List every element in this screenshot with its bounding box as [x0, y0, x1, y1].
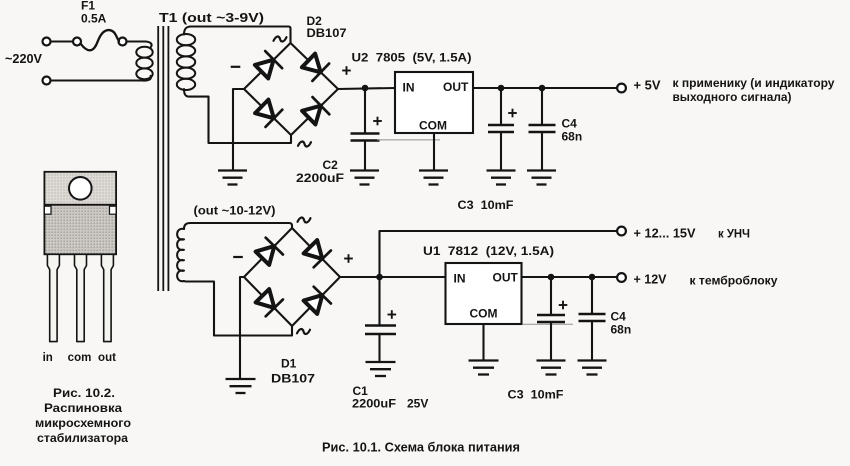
diode D2.3 (left to bottom): [255, 100, 282, 127]
node input terminal top (~220V): [43, 38, 51, 46]
svg-text:Распиновка: Распиновка: [44, 401, 122, 415]
svg-text:U1 7812 (12V, 1.5A): U1 7812 (12V, 1.5A): [423, 244, 554, 258]
label + 5V: [634, 79, 662, 93]
label - of D2: [231, 66, 241, 68]
label C3 10mF (5V rail): [458, 198, 514, 212]
ground at D1: [226, 379, 256, 393]
label out: [98, 352, 116, 364]
node input terminal bottom (~220V): [43, 77, 51, 85]
label + 12... 15V: [634, 227, 697, 241]
label ~ bottom of D2: [298, 141, 311, 146]
label U2 7805 (5V, 1.5A): [352, 51, 472, 65]
label D2: [307, 14, 323, 28]
caption Рис. 10.1. Схема блока питания: [322, 440, 520, 455]
label ~ top of D1: [298, 217, 311, 222]
svg-text:+ 12... 15V: + 12... 15V: [634, 227, 697, 241]
label D1: [281, 357, 297, 371]
svg-text:+ 5V: + 5V: [634, 79, 662, 93]
wire D1 plus to U1 IN: [340, 276, 446, 278]
label + 12V: [634, 273, 668, 287]
label DB107: [307, 26, 347, 40]
label + of D1: [344, 254, 353, 263]
wire secondary2 bottom to bridge D1 AC: [184, 281, 292, 336]
label к темброблоку: [690, 274, 778, 288]
caption микросхемного: [35, 416, 131, 430]
TO-220 package body: [44, 205, 116, 255]
svg-text:IN: IN: [403, 81, 415, 95]
diode D1.2 (top to right): [304, 240, 331, 267]
regulator U2 7805 box: [395, 72, 473, 133]
label 68n (5V rail): [562, 130, 583, 144]
label in: [43, 352, 53, 364]
svg-text:~220V: ~220V: [5, 52, 43, 66]
node +12...15V terminal: [617, 227, 626, 236]
diode D1.3 (left to bottom): [256, 289, 283, 316]
svg-text:IN: IN: [454, 272, 466, 286]
node junction C1: [376, 274, 383, 281]
TO-220 package tab: [44, 172, 116, 205]
wire U1 COM to ground: [482, 324, 484, 361]
ground at C2: [350, 171, 379, 185]
svg-text:микросхемного: микросхемного: [35, 416, 131, 430]
svg-text:68n: 68n: [611, 323, 632, 337]
svg-text:C4: C4: [562, 117, 578, 131]
ground at D2: [218, 171, 247, 185]
wire secondary1 bottom to bridge D2 AC: [184, 89, 291, 143]
capacitor C3 (5V rail): [488, 88, 517, 171]
wire D1 minus to ground: [240, 277, 244, 379]
svg-text:Рис. 10.2.: Рис. 10.2.: [53, 386, 115, 400]
diode D2.1 (left to top): [255, 51, 282, 78]
svg-text:U2 7805 (5V, 1.5A): U2 7805 (5V, 1.5A): [352, 51, 472, 65]
ground at C3 (12V rail): [537, 361, 566, 375]
label T1 (out ~3-9V): [159, 11, 264, 25]
wire primary bottom to input terminal: [51, 79, 144, 81]
wire input top to fuse: [51, 40, 74, 42]
bridge rectifier D2 diamond: [244, 43, 338, 135]
svg-text:DB107: DB107: [271, 372, 315, 386]
label - of D1: [233, 256, 243, 258]
diode D1.1 (left to top): [256, 238, 283, 265]
label ~ bottom of D1: [297, 329, 310, 334]
svg-text:OUT: OUT: [493, 271, 519, 285]
wire fuse to transformer primary: [127, 42, 152, 48]
svg-text:OUT: OUT: [443, 80, 469, 94]
capacitor C4 68n (12V rail): [579, 277, 606, 361]
TO-220 mounting hole: [69, 177, 92, 200]
ground at C4 (12V rail): [578, 361, 607, 375]
node junction C4 top: [539, 85, 546, 92]
label C4 (5V rail): [562, 117, 578, 131]
label C1: [353, 384, 369, 398]
diode D1.4 (bottom to right): [304, 287, 331, 314]
label to receiver line2: [673, 90, 792, 104]
caption Рис. 10.2.: [53, 386, 115, 400]
ground at C1: [366, 362, 396, 376]
svg-text:Рис. 10.1. Схема блока питания: Рис. 10.1. Схема блока питания: [322, 440, 520, 455]
label ~220V: [5, 52, 43, 66]
fuse F1 0.5A: [73, 0, 127, 50]
label ~ top of D2: [274, 36, 287, 41]
transformer T1 secondary winding 1: [177, 27, 195, 91]
label C3 10mF (12V rail): [508, 388, 564, 402]
svg-text:COM: COM: [419, 119, 447, 133]
svg-text:C3 10mF: C3 10mF: [508, 388, 564, 402]
label DB107 bottom: [271, 372, 315, 386]
node junction C3 bottom: [548, 274, 555, 281]
ground at U2 COM: [419, 171, 448, 185]
capacitor C4 68n (5V rail): [529, 88, 556, 171]
TO-220 pin 1 (in): [47, 254, 59, 341]
label к УНЧ: [718, 227, 750, 241]
svg-text:DB107: DB107: [307, 26, 347, 40]
svg-text:68n: 68n: [562, 130, 583, 144]
transformer T1 primary winding: [136, 47, 152, 81]
scan line artifact near C2: [377, 139, 440, 141]
svg-text:стабилизатора: стабилизатора: [37, 431, 128, 445]
label to receiver line1: [673, 76, 835, 90]
ground at C3 (5V rail): [487, 171, 516, 185]
transformer T1 core: [158, 26, 168, 291]
wire U2 OUT to +5V terminal: [473, 87, 617, 89]
wire secondary2 top to bridge D1: [184, 223, 292, 229]
diode D2.4 (bottom to right): [302, 97, 329, 124]
capacitor C2 2200uF: [351, 88, 382, 171]
node +12V output terminal: [617, 273, 626, 282]
wire D2 plus to U2 IN: [338, 88, 395, 89]
wire U2 COM to ground: [433, 133, 435, 171]
label 68n (12V rail): [611, 323, 632, 337]
wire secondary1 top to bridge D2: [191, 27, 291, 44]
label U1 7812 (12V, 1.5A): [423, 244, 554, 258]
transformer T1 secondary winding 2: [177, 229, 184, 281]
svg-text:2200uF: 2200uF: [352, 397, 396, 411]
svg-text:к применику (и индикатору: к применику (и индикатору: [673, 76, 835, 90]
ground at C4 (5V rail): [527, 171, 556, 185]
node junction C2: [362, 85, 369, 92]
caption стабилизатора: [37, 431, 128, 445]
wire +12..15V tap: [380, 231, 618, 277]
svg-text:к УНЧ: к УНЧ: [718, 227, 750, 241]
diode D2.2 (top to right): [302, 54, 329, 81]
bridge rectifier D1 diamond: [244, 228, 340, 326]
svg-text:C2: C2: [323, 158, 339, 172]
capacitor C3 (12V rail): [537, 277, 567, 361]
node junction C4 bottom: [589, 274, 596, 281]
scan line artifact near U1: [523, 323, 573, 325]
svg-text:к темброблоку: к темброблоку: [690, 274, 778, 288]
svg-text:+ 12V: + 12V: [634, 273, 668, 287]
svg-text:(out ~10-12V): (out ~10-12V): [194, 204, 276, 218]
wire U1 OUT to +12V terminal: [522, 276, 618, 278]
label 2200uF 25V: [352, 397, 428, 411]
svg-text:D1: D1: [281, 357, 297, 371]
regulator U1 7812 box: [446, 263, 522, 324]
svg-text:C4: C4: [611, 310, 627, 324]
svg-text:C3 10mF: C3 10mF: [458, 198, 514, 212]
label com: [68, 352, 92, 364]
node +5V output terminal: [617, 84, 626, 93]
label C4 (12V rail): [611, 310, 627, 324]
wire D2 minus to ground: [233, 89, 244, 171]
svg-text:COM: COM: [470, 307, 498, 321]
svg-text:2200uF: 2200uF: [296, 171, 344, 185]
TO-220 pin 3 (out): [101, 254, 113, 341]
caption Распиновка: [44, 401, 122, 415]
svg-text:T1 (out ~3-9V): T1 (out ~3-9V): [159, 11, 264, 25]
node junction C3 top: [498, 85, 505, 92]
label (out ~10-12V): [194, 204, 276, 218]
label C2: [323, 158, 339, 172]
svg-text:выходного сигнала): выходного сигнала): [673, 90, 792, 104]
ground at U1 COM: [469, 361, 499, 375]
svg-text:out: out: [98, 352, 116, 364]
TO-220 pin 2 (com): [75, 254, 87, 341]
svg-text:0.5A: 0.5A: [81, 12, 107, 26]
svg-text:com: com: [68, 352, 92, 364]
label 2200uF: [296, 171, 344, 185]
capacitor C1 2200uF 25V: [365, 277, 396, 362]
label + of D2: [342, 66, 351, 75]
svg-text:25V: 25V: [407, 397, 428, 411]
svg-text:in: in: [43, 352, 53, 364]
